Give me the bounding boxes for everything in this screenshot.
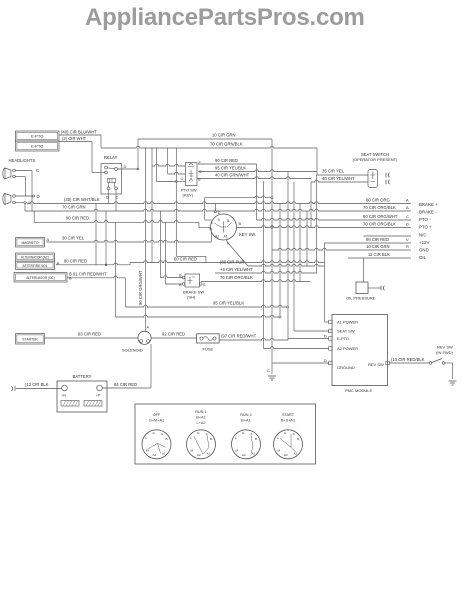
switch position OFF [142,430,171,459]
svg-text:95 CIR YEL/BLK: 95 CIR YEL/BLK [215,166,246,171]
svg-text:N/C: N/C [419,233,427,238]
svg-text:94 CIR RED: 94 CIR RED [114,382,137,387]
wire bus left x125 [125,278,127,307]
wire row 320 unlabeled [116,315,279,317]
wire GROUND row [272,362,329,364]
svg-text:C: C [267,369,270,373]
svg-text:(2) CIR WHT: (2) CIR WHT [62,136,87,141]
svg-text:95 CIR YEL/BLK: 95 CIR YEL/BLK [213,301,244,306]
svg-text:60 CIR RED: 60 CIR RED [174,257,197,262]
svg-text:70 CIR GRN: 70 CIR GRN [62,205,86,210]
wire 94 CIR RED [102,387,151,389]
switch seat switch [368,170,378,188]
svg-text:93 CIR RED: 93 CIR RED [78,332,101,337]
junction V272 row227 [271,227,273,229]
wire NC row [364,235,412,237]
wire bus left x96 [95,204,97,265]
connector seat switch pin1 [386,173,389,178]
wire relay left pin [92,172,105,174]
svg-text:R: R [406,244,409,249]
svg-text:RUN 2: RUN 2 [240,413,251,417]
wire 40 BLU/WHT drop [100,135,102,148]
switch KEY SW rotary [210,214,237,240]
svg-text:B+S+A1: B+S+A1 [281,419,295,423]
wire 93 CIR RED [45,337,138,339]
wire E-PTO stub [288,338,329,340]
svg-text:A2: A2 [215,235,219,239]
wire headlight lamp drop [24,177,26,197]
svg-text:PTO +: PTO + [419,225,432,230]
relay K1 [101,164,122,195]
wire relay pin C drop [115,190,117,211]
svg-text:+P: +P [96,394,100,398]
alternator ALTERNATOR (AC) [16,253,55,261]
solenoid AFTERFIRE SOL [16,261,55,269]
switch PTO SW (KEY) [186,163,198,186]
wire bus x307 [306,211,308,266]
switch position RUN 1 [187,430,216,459]
wire relay pin D drop [108,190,110,204]
svg-text:A2: A2 [197,453,201,457]
svg-text:C: C [181,177,184,181]
wire rev sw to ground [445,362,453,364]
svg-text:B+A1: B+A1 [196,416,205,420]
junction 95 row end [287,306,289,308]
fuse F1 [197,334,220,343]
svg-text:BRAKE +: BRAKE + [419,202,438,207]
wire 90 RED pto drop [256,164,258,220]
solenoid starter solenoid [138,331,151,344]
switch position RUN 2 [232,430,261,459]
wire rev ground drop [452,363,454,379]
terminal pin D [33,195,35,197]
svg-text:D: D [106,195,109,200]
wire 60 RED jog [176,255,206,257]
svg-text:AppliancePartsPros.com: AppliancePartsPros.com [85,4,365,31]
svg-text:(30) CIR WHT/BLK: (30) CIR WHT/BLK [64,197,100,202]
wire 95 CIR YEL/BLK pto S [198,170,317,172]
svg-text:10 CIR GRN: 10 CIR GRN [212,133,236,138]
svg-text:OIL PRESSURE: OIL PRESSURE [346,296,376,301]
svg-text:ALTERNATOR (DC): ALTERNATOR (DC) [26,276,55,280]
wire brake B2 feed drop x165 [164,222,166,284]
junction relay D bus [137,168,139,170]
svg-text:A: A [406,198,409,203]
wire A2 POWER stub [264,347,329,349]
svg-text:PTO -: PTO - [419,217,431,222]
wire 40 CIR GRN/WHT pto B [197,177,311,179]
svg-text:A2: A2 [242,453,246,457]
wire row 197 [204,196,271,198]
svg-text:L+A2: L+A2 [197,421,206,425]
box ignition switch positions [135,404,316,464]
svg-text:RELAY: RELAY [104,155,118,160]
wire bus x324 to A1 POWER [324,243,326,322]
connector E-PTO clutch pin 1 [16,131,60,141]
wire key C drop [214,204,216,211]
svg-text:90 CIR RED: 90 CIR RED [215,158,238,163]
svg-text:11 CIR BLK: 11 CIR BLK [368,252,390,257]
wire pto C stub right [176,181,185,183]
wire 70 CIR ORG/BLK key row [237,226,412,228]
wire headlight1 bottom [15,176,25,178]
wire key M feed drop x160 [160,211,162,278]
wire 30 YEL to key M [210,232,212,242]
svg-text:E-PTO: E-PTO [31,144,43,149]
wire bus x263 to A2 POWER [263,181,265,349]
wire SEAT SW stub [294,330,329,332]
wire key L feed drop [203,198,205,220]
svg-text:REV SW: REV SW [437,345,453,350]
wire bus x316 to 46 YEL/WHT [316,175,318,273]
wire A1 POWER stub [325,321,329,323]
wire 11 BLK to oil switch [363,258,365,282]
svg-text:(40) CIR BLU/WHT: (40) CIR BLU/WHT [61,130,97,135]
wire 11 CIR BLK row [348,257,411,259]
wire 60 RED jog drop [205,256,207,262]
wire 90 CIR RED pto F [198,163,257,165]
junction row197 end [271,197,273,199]
wire 13 CIR BLK [16,388,62,390]
headlight lamp 1 [3,168,15,179]
svg-text:90 CIR RED: 90 CIR RED [66,216,89,221]
svg-text:SEAT SW: SEAT SW [337,329,355,334]
wire 2 CIR WHT [59,141,92,143]
svg-text:M: M [210,228,213,232]
svg-text:(97 CIR RED/WHT: (97 CIR RED/WHT [221,334,257,339]
svg-text:(10 CIR RED/BLK: (10 CIR RED/BLK [391,357,425,362]
svg-text:D: D [124,164,127,169]
svg-text:KEY SW.: KEY SW. [239,232,256,237]
wire 80 to 60 jog [129,263,131,265]
svg-text:60 CIR ORG/WHT: 60 CIR ORG/WHT [363,214,398,219]
wire key A1 to F diagonal [226,240,248,267]
svg-text:L: L [212,221,214,225]
wire 98 CIR RED row [325,242,412,244]
wire 90 CIR RED key L row [34,220,199,222]
svg-text:A1: A1 [224,235,228,239]
svg-text:BRAKE -: BRAKE - [419,210,437,215]
connector oil pressure [381,286,384,291]
svg-text:E-PTO: E-PTO [337,336,349,341]
wire 91 CIR RED/WHT [67,276,126,278]
svg-text:SOLENOID: SOLENOID [122,348,143,353]
svg-text:B: B [255,437,257,441]
svg-text:A2: A2 [153,453,157,457]
wire bus left x115 [115,222,117,317]
svg-text:40 CIR YEL/WHT: 40 CIR YEL/WHT [322,176,355,181]
svg-text:FUSE: FUSE [203,347,214,352]
wire battery to solenoid [150,344,152,388]
svg-text:ALTERNATOR (AC): ALTERNATOR (AC) [21,256,49,260]
wire 40 CIR BLU/WHT [59,134,101,136]
svg-text:C: C [116,195,119,200]
junction row320 end [279,316,281,318]
wire 70 CIR GRN/BLK [101,146,317,148]
wire pto S feed stub [168,172,186,174]
wire 97 CIR RED/WHT [219,338,288,340]
svg-text:B 91 CIR RED/WHT: B 91 CIR RED/WHT [69,272,107,277]
module PMC MODULE [329,315,390,386]
svg-text:G+M+A1: G+M+A1 [149,419,164,423]
wire 10 GRN main drop [271,139,273,363]
wire ground drop x272 [271,363,273,374]
svg-text:(80 CIR PUR: (80 CIR PUR [220,260,244,265]
svg-text:D: D [324,335,327,339]
wire 60 CIR ORG/WHT row [257,218,411,220]
svg-text:35 CIR YEL: 35 CIR YEL [322,169,345,174]
wire bus x176 [175,148,177,256]
svg-text:V: V [406,237,409,242]
wire pto C stub left [157,181,177,183]
headlight lamp 2 [3,194,15,205]
starter STARTER [16,334,45,345]
terminal pin A [24,202,26,204]
wire pto S feed drop [167,148,169,174]
svg-text:D: D [324,359,327,363]
svg-text:98 CIR RED: 98 CIR RED [366,237,389,242]
svg-text:+N: +N [62,394,67,398]
svg-text:S: S [293,432,295,436]
wire bus x294 to SEAT SW [293,182,295,331]
svg-text:MAGNETO: MAGNETO [21,241,38,245]
svg-text:70 CIR ORG/BLK: 70 CIR ORG/BLK [363,222,396,227]
svg-text:60 CIR ORG: 60 CIR ORG [366,198,390,203]
svg-text:START: START [282,413,295,417]
wire fuse out drop [287,339,289,341]
terminal key C [214,211,216,213]
ground pmc [268,376,276,380]
svg-text:S: S [161,432,163,436]
wire 10 GRN to relay D [137,139,139,169]
svg-text:S: S [206,432,208,436]
svg-text:BATTERY: BATTERY [73,374,92,379]
switch REV SW [429,359,445,365]
wire 30 CIR YEL [47,240,212,242]
svg-text:A2: A2 [284,453,288,457]
wire 80 CIR RED [56,263,130,265]
wire bus x152 [151,148,153,263]
svg-text:A1 POWER: A1 POWER [337,320,358,325]
svg-text:70 CIR GRN/BLK: 70 CIR GRN/BLK [210,142,243,147]
wire brake B stub [161,276,183,278]
junction pto bus [175,181,177,183]
wire 46 CIR YEL/WHT [215,271,317,273]
wire 30 CIR WHT/BLK - 60 CIR ORG row [28,202,411,204]
wire 70 GRN/BLK drop to 35 YEL [316,148,318,175]
switch oil pressure [356,282,368,294]
svg-text:PMC MODULE: PMC MODULE [345,388,372,393]
svg-text:C: C [218,211,221,215]
svg-text:(KEY): (KEY) [183,193,194,198]
wire 90 CIR ORG/WHT vertical run [145,148,147,331]
wire oil sw output [368,287,381,289]
svg-text:REV SW: REV SW [368,362,384,367]
wire headlight1 top to pin C [15,170,32,172]
wire 10 CIR GRN top [138,138,272,140]
svg-text:OIL: OIL [419,255,427,260]
wire bus x300 [299,204,301,282]
wire pto F feed stub [152,164,186,166]
svg-text:RUN 1: RUN 1 [195,410,206,414]
wire 80 CIR PUR [248,264,325,266]
svg-text:B: B [210,437,212,441]
svg-text:HEADLIGHTS: HEADLIGHTS [9,158,36,163]
svg-text:A1: A1 [162,451,166,455]
svg-text:92 CIR RED: 92 CIR RED [162,332,185,337]
svg-text:+6 CIR YEL/WHT: +6 CIR YEL/WHT [220,267,253,272]
switch position START [274,430,303,459]
wire 60 CIR RED [130,261,325,263]
wire 10 CIR RED/BLK [389,362,429,364]
wire key M stub [199,227,211,229]
wire bus x288 to E-PTO [287,172,289,339]
wire 92 CIR RED [151,337,197,339]
svg-text:A2 POWER: A2 POWER [337,346,358,351]
svg-text:10 CIR GRN: 10 CIR GRN [366,244,390,249]
wire headlight2 bottom to pin A [15,202,24,204]
svg-text:A: A [47,237,50,242]
wire key M jog drop [198,222,200,227]
svg-text:B+A1: B+A1 [241,419,250,423]
wire bus left x106 [105,211,107,265]
wire 76 CIR ORG/BLK [201,280,310,282]
connector E-PTO clutch pin 2 [16,141,60,151]
svg-text:AFTERFIRE SOL: AFTERFIRE SOL [23,264,48,268]
svg-text:A1: A1 [207,451,211,455]
svg-text:OFF: OFF [153,413,161,417]
wire 95 CIR YEL/BLK long [126,305,287,307]
svg-text:A1: A1 [252,451,256,455]
svg-text:80 CIR RED: 80 CIR RED [64,259,87,264]
svg-text:76 CIR ORG/BLK: 76 CIR ORG/BLK [220,275,253,280]
svg-text:GROUND: GROUND [337,365,355,370]
battery B1 [57,381,107,412]
wire 70 CIR GRN - 70 CIR ORG/BLK row [25,209,411,211]
wire bus x280 [279,204,281,318]
svg-text:B: B [166,437,168,441]
magneto MAGNETO [16,238,45,248]
svg-text:GND: GND [419,248,429,253]
switch BRAKE SW (SH) [182,274,202,287]
wire pin A to bus [26,203,28,204]
connector battery negative lead [12,386,15,391]
wire headlight2 top to pin D [15,195,32,197]
wire pto C feed drop [156,148,158,182]
svg-text:30 CIR YEL: 30 CIR YEL [62,236,85,241]
connector seat switch pin2 [386,180,389,185]
svg-text:+12V: +12V [419,240,429,245]
svg-text:B: B [297,437,299,441]
svg-text:70 CIR ORG/BLK: 70 CIR ORG/BLK [363,205,396,210]
wire 40 CIR YEL/WHT [311,180,368,182]
wire 70 GRN left drop [24,203,26,212]
junction 80 RED [105,264,107,266]
svg-text:E-PTO: E-PTO [31,134,43,139]
wire 2 WHT drop [91,142,93,173]
svg-text:(IN FWD): (IN FWD) [436,350,454,355]
wire brake B2 stub [165,283,182,285]
svg-text:(SH): (SH) [187,295,196,300]
svg-text:90 CIR ORG/WHT: 90 CIR ORG/WHT [138,270,143,305]
svg-text:(OPERATOR PRESENT): (OPERATOR PRESENT) [353,157,398,162]
ground rev switch [449,381,457,385]
wire bus x311 [310,182,312,228]
wire 35 CIR YEL [317,174,369,176]
wire 10 CIR GRN row [272,248,411,250]
wire headlight C drop [31,171,33,212]
wire key L stub [204,219,211,221]
svg-text:STARTER: STARTER [22,337,38,341]
svg-text:(13 CIR BLK: (13 CIR BLK [25,382,49,387]
svg-text:A: A [406,205,409,210]
alternator ALTERNATOR (DC) [14,273,67,283]
wire 90 RED left riser [33,211,35,222]
svg-text:S: S [251,432,253,436]
wire relay D to bus [117,168,138,170]
svg-text:40 CIR GRN/WHT: 40 CIR GRN/WHT [215,173,250,178]
svg-text:C: C [406,214,409,219]
svg-text:D: D [406,222,409,227]
